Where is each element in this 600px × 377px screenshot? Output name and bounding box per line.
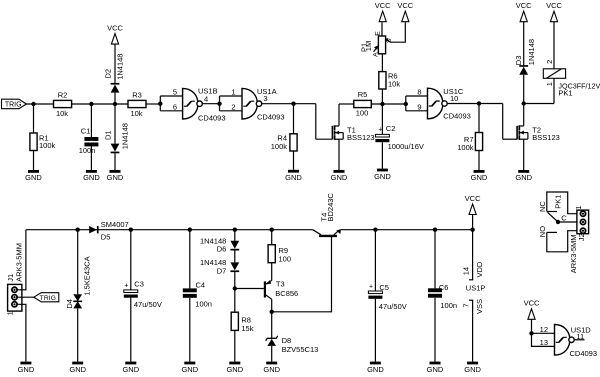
svg-text:10k: 10k bbox=[388, 80, 400, 89]
svg-text:11: 11 bbox=[576, 332, 584, 341]
svg-text:+: + bbox=[124, 283, 128, 290]
wire R7 to ground bbox=[478, 151, 480, 171]
resistor R8 bbox=[231, 312, 238, 330]
wire TRIG to R1/R2 junction bbox=[26, 103, 53, 105]
wire R1 top bbox=[33, 104, 35, 133]
diode D8 zener bbox=[267, 339, 276, 346]
svg-text:D5: D5 bbox=[101, 232, 111, 241]
svg-text:GND: GND bbox=[285, 173, 302, 182]
junction at C3 bbox=[129, 228, 133, 232]
resistor R1 bbox=[30, 133, 37, 151]
junction at D4 bbox=[76, 228, 80, 232]
wire T3 collector to T4 base bbox=[272, 237, 332, 312]
connector J2 bbox=[577, 210, 589, 234]
svg-text:GND: GND bbox=[464, 365, 481, 374]
svg-text:VCC: VCC bbox=[107, 23, 123, 32]
wire D7 to junction bbox=[234, 272, 236, 312]
svg-text:10: 10 bbox=[450, 94, 458, 103]
svg-text:T3: T3 bbox=[276, 279, 285, 288]
svg-text:BZV55C13: BZV55C13 bbox=[282, 345, 319, 354]
junction at C6 bbox=[433, 228, 437, 232]
svg-text:VCC: VCC bbox=[397, 1, 413, 10]
svg-text:GND: GND bbox=[263, 365, 280, 374]
resistor R4 bbox=[290, 134, 297, 151]
wire C2 top bbox=[381, 104, 383, 134]
wire C5 top bbox=[374, 230, 376, 291]
svg-text:47u/50V: 47u/50V bbox=[379, 302, 407, 311]
svg-text:GND: GND bbox=[181, 365, 198, 374]
ground US1P VSS bbox=[467, 362, 478, 365]
resistor R2 bbox=[54, 100, 72, 107]
ground C5 bbox=[370, 362, 381, 365]
svg-text:D2: D2 bbox=[103, 69, 112, 79]
svg-text:PK1: PK1 bbox=[553, 195, 562, 209]
wire D1 to ground bbox=[114, 153, 116, 170]
svg-text:BSS123: BSS123 bbox=[347, 133, 375, 142]
wire R5 to US1C bbox=[371, 103, 406, 105]
svg-text:1: 1 bbox=[574, 205, 583, 209]
wire T1 source to ground bbox=[338, 139, 340, 170]
svg-text:VCC: VCC bbox=[546, 1, 562, 10]
svg-text:BC856: BC856 bbox=[275, 289, 298, 298]
svg-text:R3: R3 bbox=[132, 91, 142, 100]
wire J1 pin mid to TRIG bbox=[17, 296, 34, 298]
ground C2 bbox=[377, 169, 388, 172]
wire J1 pin bottom to ground bbox=[17, 304, 26, 361]
svg-text:PK1: PK1 bbox=[558, 89, 572, 98]
wire US1C input bar bbox=[405, 96, 407, 111]
svg-text:GND: GND bbox=[226, 365, 243, 374]
svg-text:7: 7 bbox=[461, 303, 470, 307]
resistor R7 bbox=[475, 133, 482, 151]
svg-text:47u/50V: 47u/50V bbox=[134, 300, 162, 309]
wire US1B pin6 bbox=[160, 110, 182, 112]
wire D6 to D7 bbox=[234, 250, 236, 262]
junction at R1 bbox=[31, 102, 35, 106]
ground D1 bbox=[110, 170, 121, 173]
svg-text:R2: R2 bbox=[58, 91, 68, 100]
svg-text:CD4093: CD4093 bbox=[198, 113, 226, 122]
wire P1 wiper bbox=[387, 22, 406, 42]
svg-text:NO: NO bbox=[538, 226, 547, 237]
svg-text:1N4148: 1N4148 bbox=[120, 123, 129, 149]
wire US1C pin8 bbox=[406, 95, 428, 97]
svg-text:GND: GND bbox=[122, 365, 139, 374]
connector J1 bbox=[8, 284, 22, 311]
wire C5 to ground bbox=[374, 299, 376, 362]
svg-text:10k: 10k bbox=[56, 109, 68, 118]
junction at US1A input bbox=[217, 102, 221, 106]
svg-text:BD243C: BD243C bbox=[326, 193, 335, 222]
junction at R6 C2 bbox=[380, 102, 384, 106]
wire T2 drain to relay bbox=[524, 103, 554, 105]
svg-text:D1: D1 bbox=[103, 130, 112, 140]
wire US1A output pin3 bbox=[262, 103, 316, 105]
wire R4 top bbox=[293, 104, 295, 134]
svg-text:C1: C1 bbox=[81, 126, 91, 135]
wire C3 to ground bbox=[130, 298, 132, 362]
wire R7 top bbox=[478, 104, 480, 133]
svg-text:2: 2 bbox=[545, 60, 554, 64]
node TRIG input tag bbox=[2, 99, 27, 109]
svg-text:C2: C2 bbox=[386, 124, 396, 133]
svg-text:VCC: VCC bbox=[524, 299, 540, 308]
ground R4 bbox=[288, 170, 299, 173]
svg-text:C: C bbox=[561, 213, 567, 222]
capacitor C2 bbox=[375, 134, 389, 137]
diode D7 bbox=[230, 262, 239, 270]
wire D6 top bbox=[234, 230, 236, 241]
nand gate US1B bbox=[183, 88, 198, 119]
wire C3 top bbox=[130, 230, 132, 290]
wire C1 to ground bbox=[90, 146, 92, 170]
wire US1A to T1 gate bbox=[315, 104, 317, 140]
svg-text:A: A bbox=[372, 52, 379, 57]
wire D3 bottom bbox=[523, 75, 525, 104]
svg-text:10k: 10k bbox=[130, 109, 142, 118]
svg-text:100k: 100k bbox=[39, 141, 56, 150]
wire C1 top bbox=[90, 104, 92, 137]
wire to T3 base bbox=[235, 288, 264, 290]
relay coil PK1 bbox=[543, 69, 565, 79]
svg-text:100: 100 bbox=[356, 109, 369, 118]
diode D4 TVS bbox=[73, 294, 82, 301]
svg-text:+: + bbox=[378, 127, 382, 134]
resistor R5 bbox=[354, 100, 372, 107]
svg-text:100n: 100n bbox=[79, 146, 96, 155]
junction at T3 base bbox=[233, 286, 237, 290]
wire US1C output pin10 bbox=[448, 103, 503, 105]
wire NO to J2 pin3 bbox=[547, 231, 581, 252]
svg-text:1.5KE43CA: 1.5KE43CA bbox=[82, 256, 91, 295]
svg-text:100k: 100k bbox=[457, 143, 474, 152]
ground D4 bbox=[72, 362, 83, 365]
svg-text:2: 2 bbox=[231, 103, 235, 112]
transistor T3 bbox=[264, 281, 266, 297]
svg-text:NC: NC bbox=[538, 201, 547, 212]
wire US1B pin5 bbox=[160, 95, 182, 97]
ground R7 bbox=[474, 170, 485, 173]
capacitor C5 bbox=[368, 291, 382, 294]
diode D1 bbox=[111, 144, 120, 152]
svg-text:3: 3 bbox=[263, 94, 267, 103]
resistor R6 bbox=[379, 72, 386, 89]
svg-text:1: 1 bbox=[545, 82, 554, 86]
svg-text:C6: C6 bbox=[439, 283, 449, 292]
wire US1D output pin11 bbox=[575, 339, 585, 341]
svg-text:C5: C5 bbox=[379, 283, 389, 292]
power VCC above P1 bbox=[379, 11, 386, 22]
junction at US1D input bbox=[529, 331, 533, 335]
wire C2 to ground bbox=[381, 142, 383, 168]
svg-text:GND: GND bbox=[367, 365, 384, 374]
svg-text:GND: GND bbox=[69, 365, 86, 374]
wire to D1 bbox=[114, 104, 116, 144]
ground C4 bbox=[184, 362, 195, 365]
svg-text:1N4148: 1N4148 bbox=[527, 39, 536, 65]
svg-text:D7: D7 bbox=[217, 267, 227, 276]
svg-text:1M: 1M bbox=[364, 41, 373, 51]
transistor T2 bbox=[516, 126, 518, 140]
ground T1 bbox=[334, 170, 345, 173]
ground C1 bbox=[86, 170, 97, 173]
ground R1 bbox=[28, 170, 39, 173]
svg-text:9: 9 bbox=[417, 103, 421, 112]
svg-text:GND: GND bbox=[107, 173, 124, 182]
wire T3 collector down bbox=[271, 299, 273, 338]
wire D3 to VCC bbox=[523, 22, 525, 65]
svg-text:100k: 100k bbox=[271, 142, 288, 151]
svg-text:GND: GND bbox=[18, 365, 35, 374]
svg-text:J1: J1 bbox=[6, 274, 15, 282]
svg-text:GND: GND bbox=[25, 173, 42, 182]
capacitor C6 bbox=[428, 288, 442, 292]
ground C3 bbox=[125, 362, 136, 365]
svg-text:+: + bbox=[369, 284, 373, 291]
junction at T3 collector bbox=[270, 310, 274, 314]
svg-text:VCC: VCC bbox=[375, 1, 391, 10]
svg-text:100n: 100n bbox=[195, 299, 212, 308]
svg-text:C4: C4 bbox=[196, 280, 206, 289]
svg-text:VCC: VCC bbox=[516, 1, 532, 10]
svg-text:E: E bbox=[375, 31, 382, 36]
svg-text:15k: 15k bbox=[241, 324, 253, 333]
svg-text:GND: GND bbox=[427, 365, 444, 374]
wire R9 to T3 emitter bbox=[271, 263, 273, 281]
svg-text:8: 8 bbox=[417, 88, 421, 97]
power VCC above D2 bbox=[111, 34, 118, 45]
ground C6 bbox=[430, 362, 441, 365]
diode D2 bbox=[111, 85, 120, 93]
svg-text:J2: J2 bbox=[577, 233, 586, 241]
svg-text:VSS: VSS bbox=[475, 299, 484, 314]
capacitor C4 bbox=[183, 288, 197, 292]
junction at D6 bbox=[233, 228, 237, 232]
svg-text:TRIG: TRIG bbox=[40, 295, 56, 302]
power VCC above relay bbox=[550, 11, 557, 22]
junction at C5 bbox=[373, 228, 377, 232]
diode D6 bbox=[230, 241, 239, 249]
ground D8 bbox=[266, 362, 277, 365]
svg-text:1: 1 bbox=[5, 311, 14, 315]
svg-text:TRIG: TRIG bbox=[5, 101, 22, 108]
wire D4 to ground bbox=[77, 308, 79, 361]
wire US1C pin9 bbox=[406, 110, 428, 112]
ground J1 bbox=[20, 362, 31, 365]
wire C6 top bbox=[434, 230, 436, 289]
svg-text:4: 4 bbox=[204, 94, 208, 103]
transistor T4 bbox=[319, 235, 337, 237]
svg-text:12: 12 bbox=[540, 325, 548, 334]
power pin US1P VSS pin7 bbox=[472, 300, 474, 361]
svg-text:US1P: US1P bbox=[466, 284, 486, 293]
wire R4 to ground bbox=[293, 151, 295, 170]
nand gate US1A bbox=[242, 88, 257, 119]
wire US1A pin2 bbox=[220, 110, 243, 112]
wire D2 to VCC bbox=[114, 44, 116, 83]
power VCC at wiper bbox=[402, 11, 409, 22]
wire R8 to ground bbox=[234, 330, 236, 361]
svg-text:6: 6 bbox=[173, 103, 177, 112]
junction at US1C input bbox=[404, 102, 408, 106]
svg-text:100: 100 bbox=[279, 254, 292, 263]
wire R9 top bbox=[271, 230, 273, 245]
wire R6 to P1 bbox=[381, 54, 383, 72]
diode D3 bbox=[519, 67, 528, 75]
svg-text:R5: R5 bbox=[358, 90, 368, 99]
wire D4 top bbox=[77, 230, 79, 295]
junction at R9 bbox=[270, 228, 274, 232]
svg-text:BSS123: BSS123 bbox=[532, 133, 560, 142]
wire T1 drain bbox=[338, 104, 340, 126]
svg-text:C3: C3 bbox=[134, 280, 144, 289]
wire T2 drain bbox=[523, 104, 525, 126]
svg-text:ARK3-5MM: ARK3-5MM bbox=[569, 234, 578, 273]
wire C4 to ground bbox=[189, 298, 191, 362]
wire US1B input bar bbox=[159, 96, 161, 111]
nand gate US1D bbox=[555, 325, 570, 356]
wire J1 pin top to rail bbox=[17, 230, 26, 290]
svg-text:D6: D6 bbox=[217, 244, 227, 253]
svg-text:13: 13 bbox=[540, 338, 548, 347]
power VCC above US1D bbox=[528, 309, 535, 320]
svg-text:1: 1 bbox=[231, 88, 235, 97]
svg-text:CD4093: CD4093 bbox=[443, 111, 471, 120]
wire C to J2 pin2 bbox=[558, 221, 580, 223]
diode D5 bbox=[89, 226, 97, 233]
wire bottom rail right bbox=[341, 229, 473, 231]
transistor T1 bbox=[331, 126, 333, 140]
junction at R7 bbox=[477, 101, 481, 105]
junction at VDD bbox=[470, 228, 474, 232]
svg-text:VDD: VDD bbox=[475, 261, 484, 277]
junction at US1B input bbox=[158, 102, 162, 106]
power VCC above D3 bbox=[520, 11, 527, 22]
svg-text:100n: 100n bbox=[440, 301, 457, 310]
svg-text:CD4093: CD4093 bbox=[257, 112, 285, 121]
wire P1 top to VCC bbox=[381, 22, 383, 36]
junction at C4 bbox=[188, 228, 192, 232]
svg-text:D4: D4 bbox=[65, 299, 74, 309]
wire D8 to ground bbox=[271, 346, 273, 362]
junction at R4 bbox=[291, 102, 295, 106]
junction at C1 bbox=[89, 102, 93, 106]
wire R2 to R3 bbox=[72, 103, 128, 105]
wire R3 to US1B bbox=[146, 103, 160, 105]
wire relay to VCC bbox=[553, 22, 555, 69]
svg-text:GND: GND bbox=[515, 173, 532, 182]
capacitor C3 bbox=[124, 290, 138, 293]
junction at T2 drain bbox=[522, 101, 526, 105]
capacitor C1 bbox=[84, 137, 98, 141]
wire T2 source to ground bbox=[523, 139, 525, 170]
wire US1D pin13 bbox=[532, 333, 555, 346]
wire R6 bottom bbox=[381, 89, 383, 104]
svg-text:1000u/16V: 1000u/16V bbox=[388, 142, 424, 151]
wire NC to J2 pin1 bbox=[547, 192, 581, 214]
wire US1A input bar bbox=[219, 96, 221, 111]
svg-text:CD4093: CD4093 bbox=[570, 349, 598, 358]
svg-text:D3: D3 bbox=[514, 56, 523, 66]
wire to D2 bbox=[114, 93, 116, 104]
wire US1D pin12 bbox=[532, 332, 555, 334]
nand gate US1C bbox=[428, 88, 443, 119]
svg-text:VCC: VCC bbox=[465, 194, 481, 203]
power VCC above US1P bbox=[469, 204, 476, 215]
power pin US1P VDD pin14 bbox=[472, 230, 474, 280]
junction at D1 D2 bbox=[113, 102, 117, 106]
svg-text:1N4148: 1N4148 bbox=[115, 54, 124, 80]
wire US1B output pin4 bbox=[203, 103, 220, 105]
svg-text:GND: GND bbox=[374, 172, 391, 181]
svg-text:GND: GND bbox=[331, 173, 348, 182]
ground T2 bbox=[518, 170, 529, 173]
svg-text:GND: GND bbox=[83, 173, 100, 182]
ground R8 bbox=[229, 362, 240, 365]
svg-text:ARK3-5MM: ARK3-5MM bbox=[15, 243, 24, 282]
svg-text:SM4007: SM4007 bbox=[101, 220, 129, 229]
wire C6 to ground bbox=[434, 298, 436, 362]
node TRIG bottom tag bbox=[34, 293, 59, 302]
wire C4 top bbox=[189, 230, 191, 289]
svg-text:GND: GND bbox=[471, 173, 488, 182]
svg-text:14: 14 bbox=[461, 267, 470, 275]
potentiometer P1 bbox=[378, 36, 385, 54]
wire US1A pin1 bbox=[220, 95, 243, 97]
wire R1 to ground bbox=[33, 151, 35, 171]
resistor R9 bbox=[268, 245, 275, 263]
resistor R3 bbox=[128, 100, 146, 107]
wire to T2 gate bbox=[502, 104, 504, 140]
wire bottom rail left bbox=[26, 229, 313, 231]
svg-text:5: 5 bbox=[173, 88, 177, 97]
